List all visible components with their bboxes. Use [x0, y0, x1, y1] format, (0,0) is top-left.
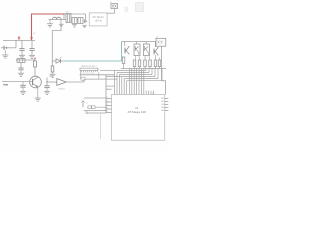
svg-text:PA0: PA0 [161, 103, 164, 106]
svg-text:+5: +5 [86, 103, 88, 105]
svg-text:LM358: LM358 [58, 88, 65, 90]
svg-text:+12: +12 [109, 2, 112, 4]
svg-text:J4: J4 [156, 37, 158, 39]
svg-text:22: 22 [106, 111, 108, 113]
svg-text:PA0: PA0 [161, 100, 164, 103]
svg-text:PA0: PA0 [161, 109, 164, 112]
svg-text:22: 22 [106, 97, 108, 99]
svg-text:+5V In: +5V In [94, 18, 102, 22]
svg-text:AT Mega 128: AT Mega 128 [128, 110, 147, 114]
svg-text:22: 22 [106, 108, 108, 110]
svg-text:U2A: U2A [49, 75, 54, 78]
svg-text:PA0: PA0 [161, 106, 164, 109]
svg-text:22: 22 [106, 104, 108, 106]
svg-text:DC Motor: DC Motor [93, 15, 104, 19]
svg-text:22: 22 [106, 101, 108, 103]
svg-text:PA0: PA0 [161, 97, 164, 100]
